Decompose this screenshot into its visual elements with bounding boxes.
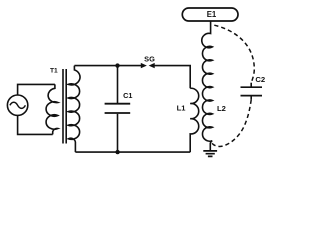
spark gap SG right arrow [150, 64, 154, 68]
capacitor C2 lead top [250, 83, 252, 87]
transformer T1 primary winding [46, 84, 58, 134]
svg-text:T1: T1 [50, 68, 58, 75]
junction dot top [115, 63, 119, 67]
svg-text:SG: SG [144, 54, 155, 63]
electrode E1 [182, 8, 238, 21]
dashed stray capacitance curve top [214, 25, 254, 82]
svg-text:C1: C1 [123, 91, 132, 100]
transformer T1 core [63, 69, 66, 144]
capacitor C1 plates [105, 104, 131, 113]
svg-text:L2: L2 [217, 104, 226, 113]
spark gap SG left arrow [141, 64, 145, 68]
capacitor C2 plates [241, 87, 263, 95]
sine wave [10, 102, 26, 108]
inductor L2 with lead from E1 [202, 21, 213, 151]
junction dot bottom [115, 150, 119, 154]
capacitor C1 lead bottom [117, 114, 119, 152]
svg-text:L1: L1 [177, 103, 187, 112]
inductor L1 [190, 88, 199, 152]
transformer T1 secondary winding [68, 66, 80, 153]
AC source [7, 95, 27, 115]
dashed stray capacitance curve bottom [212, 100, 252, 147]
capacitor C1 lead top [117, 66, 119, 103]
capacitor C2 lead bottom [250, 96, 252, 100]
wire top (secondary to spark gap left) [74, 65, 141, 67]
svg-text:E1: E1 [207, 10, 217, 19]
wire top (spark gap right to L1) [154, 66, 190, 89]
svg-text:C2: C2 [255, 75, 265, 84]
ground [203, 151, 217, 157]
wire bottom-left loop [18, 115, 53, 134]
wire top-left loop [18, 84, 55, 95]
wire bottom [75, 151, 190, 153]
